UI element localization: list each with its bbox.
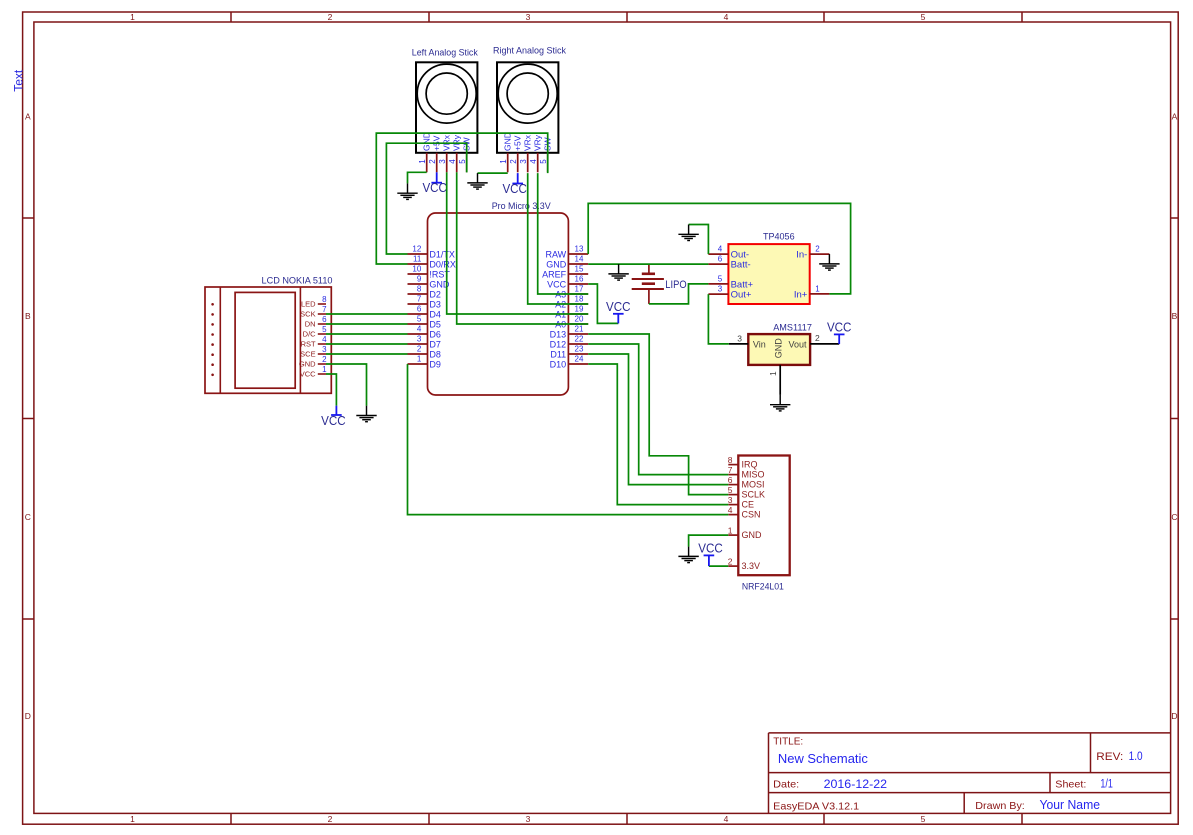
svg-text:IRQ: IRQ — [742, 460, 758, 470]
ground (NRF24L01 GND) — [678, 547, 698, 563]
svg-text:3: 3 — [526, 814, 531, 824]
svg-text:4: 4 — [417, 325, 422, 334]
wire LCD DN to D5 — [326, 323, 408, 325]
wire Out+ to AMS1117 Vin — [708, 294, 728, 344]
svg-text:8: 8 — [728, 455, 733, 465]
pin 9 GND — [408, 275, 450, 290]
svg-text:5: 5 — [539, 159, 548, 164]
svg-text:9: 9 — [417, 275, 422, 284]
svg-text:8: 8 — [417, 285, 422, 294]
svg-text:6: 6 — [417, 305, 422, 314]
svg-text:6: 6 — [718, 255, 723, 264]
wire ground to Out- — [689, 225, 709, 255]
svg-text:VRy: VRy — [532, 134, 542, 151]
pin 3 D7 — [408, 335, 441, 350]
wire battery bottom to Batt+ — [649, 284, 709, 304]
svg-text:1: 1 — [768, 371, 778, 376]
pin 2 In- — [796, 245, 829, 261]
svg-text:5: 5 — [728, 485, 733, 495]
svg-text:Out+: Out+ — [731, 290, 752, 301]
pin 1 D9 — [408, 355, 441, 370]
svg-text:2: 2 — [322, 355, 327, 364]
ground (LCD GND) — [356, 406, 376, 422]
wire LCD SCK to D4 — [326, 313, 408, 315]
pin 5 SW — [539, 137, 552, 172]
svg-text:Drawn By:: Drawn By: — [975, 800, 1025, 812]
svg-text:In+: In+ — [794, 289, 808, 300]
svg-text:6: 6 — [728, 475, 733, 485]
svg-text:D6: D6 — [429, 329, 441, 339]
svg-text:D/C: D/C — [303, 330, 317, 339]
svg-text:LCD NOKIA 5110: LCD NOKIA 5110 — [262, 275, 333, 286]
wire D11 to MOSI — [588, 354, 728, 485]
pin 1 GND — [768, 338, 783, 395]
svg-text:D12: D12 — [550, 339, 567, 349]
svg-text:1: 1 — [130, 814, 135, 824]
svg-text:3: 3 — [438, 159, 447, 164]
wire D10 to CE — [588, 364, 728, 505]
wire NRF GND to ground — [689, 535, 729, 547]
svg-text:D0/RX: D0/RX — [429, 259, 456, 269]
pin 17 A3 — [555, 285, 588, 300]
svg-text:4: 4 — [724, 12, 729, 22]
pin 15 AREF — [542, 265, 588, 280]
pin 8 LED — [301, 295, 327, 309]
pin 20 A0 — [555, 315, 588, 330]
pin 2 D8 — [408, 345, 441, 360]
svg-text:7: 7 — [322, 305, 327, 314]
power flag VCC (right stick +5V) — [502, 173, 527, 196]
svg-text:3: 3 — [526, 12, 531, 22]
ground (Batt- net) — [608, 264, 628, 280]
svg-text:D1/TX: D1/TX — [429, 249, 455, 259]
svg-text:4: 4 — [322, 335, 327, 344]
svg-text:1/1: 1/1 — [1100, 779, 1113, 791]
pin 8 D2 — [408, 285, 441, 300]
svg-text:GND: GND — [299, 360, 316, 369]
svg-text:2: 2 — [509, 159, 518, 164]
svg-text:REV:: REV: — [1096, 751, 1123, 763]
regulator U5 AMS1117 — [748, 334, 810, 365]
pin 5 D5 — [408, 315, 441, 330]
svg-text:In-: In- — [796, 250, 807, 261]
pin 5 SW — [458, 137, 471, 172]
wire right VRy to A3 — [538, 173, 589, 294]
svg-text:1: 1 — [322, 365, 327, 374]
pin 7 SCK — [300, 305, 327, 319]
svg-text:1: 1 — [728, 526, 733, 536]
power flag VCC (left stick +5V) — [422, 172, 447, 195]
svg-text:A: A — [25, 112, 31, 122]
svg-text:GND: GND — [421, 132, 431, 151]
ground (right stick) — [467, 173, 487, 189]
svg-text:4: 4 — [718, 245, 723, 254]
svg-text:VCC: VCC — [502, 182, 527, 196]
pin 2 3.3V — [728, 557, 760, 572]
wire left SW to D1/TX — [386, 143, 466, 254]
pin 6 DN — [305, 315, 327, 329]
svg-text:2: 2 — [328, 814, 333, 824]
svg-text:D: D — [25, 711, 31, 721]
wire LCD GND to ground — [326, 364, 367, 406]
pin 1 GND — [418, 132, 431, 172]
pin 4 Out- — [708, 245, 749, 261]
pin 7 MISO — [728, 465, 765, 480]
ground (Out- net) — [678, 225, 698, 241]
svg-text:Batt-: Batt- — [731, 260, 751, 271]
svg-text:D5: D5 — [429, 319, 441, 329]
svg-text:D10: D10 — [550, 359, 567, 369]
svg-text:Vout: Vout — [788, 339, 807, 349]
svg-text:B: B — [1172, 311, 1178, 321]
pin 1 GND — [728, 526, 762, 541]
pin 4 CSN — [728, 505, 761, 520]
pin 6 MOSI — [728, 475, 765, 490]
svg-text:Left Analog Stick: Left Analog Stick — [412, 47, 478, 58]
svg-text:MISO: MISO — [742, 470, 765, 480]
pin 16 VCC — [547, 275, 588, 290]
svg-text:4: 4 — [724, 814, 729, 824]
svg-text:1: 1 — [815, 285, 820, 294]
svg-text:GND: GND — [773, 338, 783, 359]
wire right stick GND to ground — [478, 172, 508, 174]
svg-text:5: 5 — [921, 814, 926, 824]
svg-text:24: 24 — [575, 355, 584, 364]
power flag VCC (LCD VCC) — [321, 406, 346, 428]
svg-text:D11: D11 — [550, 349, 566, 359]
pin 10 !RST — [408, 265, 451, 280]
svg-text:3.3V: 3.3V — [742, 561, 761, 571]
svg-text:3: 3 — [519, 159, 528, 164]
svg-text:2: 2 — [815, 333, 820, 343]
svg-text:D8: D8 — [429, 349, 441, 359]
pin 1 VCC — [300, 365, 327, 379]
svg-text:D13: D13 — [550, 329, 567, 339]
ground (left stick) — [397, 183, 417, 199]
svg-text:EasyEDA V3.12.1: EasyEDA V3.12.1 — [773, 801, 859, 813]
svg-text:AREF: AREF — [542, 269, 567, 279]
svg-text:12: 12 — [412, 245, 421, 254]
pin 23 D11 — [550, 345, 588, 360]
svg-text:3: 3 — [737, 333, 742, 343]
svg-text:AMS1117: AMS1117 — [773, 322, 812, 333]
pin 3 Out+ — [708, 285, 752, 301]
svg-text:LED: LED — [301, 300, 316, 309]
svg-text:2: 2 — [417, 345, 422, 354]
wire LCD D/C to D6 — [326, 333, 408, 335]
svg-text:DN: DN — [305, 320, 316, 329]
svg-text:2: 2 — [728, 557, 733, 567]
pin 3 VRx — [438, 134, 451, 172]
pin 11 D0/RX — [408, 255, 456, 270]
svg-text:13: 13 — [575, 245, 584, 254]
svg-text:3: 3 — [718, 285, 723, 294]
svg-text:3: 3 — [728, 495, 733, 505]
svg-text:1: 1 — [499, 159, 508, 164]
wire LCD RST to D7 — [326, 343, 408, 345]
svg-text:D: D — [1171, 711, 1177, 721]
svg-text:8: 8 — [322, 295, 327, 304]
svg-text:RST: RST — [301, 340, 316, 349]
svg-text:2016-12-22: 2016-12-22 — [824, 779, 888, 791]
svg-text:C: C — [25, 512, 31, 522]
svg-text:MOSI: MOSI — [742, 480, 765, 490]
power flag VCC (NRF24L01 3.3V) — [698, 542, 728, 567]
wire D12 to MISO — [588, 344, 728, 475]
svg-text:C: C — [1171, 512, 1177, 522]
pin 14 GND — [546, 255, 588, 270]
svg-text:VCC: VCC — [300, 370, 316, 379]
pin 19 A1 — [555, 305, 588, 320]
pin 4 VRy — [529, 134, 542, 172]
pin 13 RAW — [546, 245, 589, 260]
svg-text:4: 4 — [728, 505, 733, 515]
title block — [769, 733, 1171, 814]
power flag VCC (Pro Micro VCC) — [606, 300, 631, 324]
svg-text:VCC: VCC — [321, 414, 346, 428]
svg-text:CE: CE — [742, 500, 755, 510]
pin 4 VRy — [448, 134, 461, 172]
svg-text:GND: GND — [742, 530, 763, 540]
svg-text:14: 14 — [575, 255, 584, 264]
svg-text:SCE: SCE — [300, 350, 315, 359]
RF module U3 NRF24L01 — [738, 456, 789, 576]
svg-text:10: 10 — [412, 265, 421, 274]
MCU U1 Pro Micro 3.3V — [428, 213, 569, 395]
svg-text:23: 23 — [575, 345, 584, 354]
pin 24 D10 — [550, 355, 589, 370]
svg-text:D3: D3 — [429, 299, 441, 309]
svg-text:+5V: +5V — [512, 135, 522, 151]
svg-text:Vin: Vin — [753, 339, 766, 349]
svg-text:VCC: VCC — [422, 181, 447, 195]
LCD module U2 LCD NOKIA 5110 — [205, 287, 331, 393]
svg-text:A: A — [1172, 112, 1178, 122]
svg-text:2: 2 — [328, 12, 333, 22]
svg-text:7: 7 — [417, 295, 422, 304]
svg-text:5: 5 — [417, 315, 422, 324]
wire right SW to D0/RX — [376, 133, 547, 264]
pin 4 D6 — [408, 325, 441, 340]
svg-text:TITLE:: TITLE: — [773, 737, 803, 748]
svg-text:6: 6 — [322, 315, 327, 324]
pin 7 D3 — [408, 295, 441, 310]
svg-text:D7: D7 — [429, 339, 441, 349]
svg-text:4: 4 — [448, 159, 457, 164]
svg-text:1: 1 — [130, 12, 135, 22]
svg-text:B: B — [25, 311, 31, 321]
pin 2 +5V — [428, 135, 441, 172]
wire right VRx to A2 — [528, 173, 589, 304]
svg-text:18: 18 — [575, 295, 584, 304]
wire left VRx to A1 — [447, 172, 589, 314]
svg-text:VRx: VRx — [522, 134, 532, 151]
svg-text:3: 3 — [417, 335, 422, 344]
pin 3 CE — [728, 495, 754, 510]
svg-text:17: 17 — [575, 285, 584, 294]
pin 3 SCE — [300, 345, 327, 359]
svg-text:Sheet:: Sheet: — [1055, 779, 1086, 791]
wire LCD SCE to D8 — [326, 353, 408, 355]
power flag VCC (AMS1117 Vout) — [827, 320, 852, 344]
pin 2 GND — [299, 355, 327, 369]
svg-text:5: 5 — [322, 325, 327, 334]
svg-text:15: 15 — [575, 265, 584, 274]
wire left VRy to A0 — [457, 172, 589, 324]
svg-text:1.0: 1.0 — [1129, 751, 1143, 763]
svg-text:16: 16 — [575, 275, 584, 284]
pin 1 In+ — [794, 285, 830, 301]
svg-text:5: 5 — [921, 12, 926, 22]
pin 3 VRx — [519, 134, 532, 172]
pin 21 D13 — [550, 325, 589, 340]
svg-text:2: 2 — [428, 159, 437, 164]
svg-text:NRF24L01: NRF24L01 — [742, 581, 784, 592]
pin 12 D1/TX — [408, 245, 455, 260]
svg-text:1: 1 — [417, 355, 422, 364]
svg-text:Right Analog Stick: Right Analog Stick — [493, 46, 566, 57]
svg-text:VCC: VCC — [698, 542, 723, 556]
svg-text:21: 21 — [575, 325, 584, 334]
pin 18 A2 — [555, 295, 588, 310]
pin 6 Batt- — [708, 255, 750, 271]
svg-text:LIPO: LIPO — [665, 279, 687, 291]
pin 5 SCLK — [728, 485, 765, 500]
svg-text:D9: D9 — [429, 359, 441, 369]
svg-text:Your Name: Your Name — [1040, 798, 1101, 812]
svg-text:TP4056: TP4056 — [763, 231, 795, 242]
svg-text:D4: D4 — [429, 309, 441, 319]
pin 1 GND — [499, 132, 512, 172]
svg-text:Date:: Date: — [773, 779, 799, 791]
connector J1 Left Analog Stick — [416, 62, 477, 153]
svg-text:22: 22 — [575, 335, 584, 344]
svg-text:11: 11 — [413, 255, 422, 264]
wire D9 to CSN — [408, 364, 729, 515]
wire VCC16 to VCC flag — [588, 284, 618, 323]
ground (TP4056 In-) — [819, 254, 839, 270]
pin 5 Batt+ — [708, 275, 753, 291]
pin 4 RST — [301, 335, 328, 349]
wire left stick GND to ground — [408, 172, 427, 183]
svg-text:Pro Micro 3.3V: Pro Micro 3.3V — [492, 201, 552, 212]
svg-text:RAW: RAW — [546, 249, 567, 259]
svg-text:GND: GND — [502, 132, 512, 151]
svg-text:VCC: VCC — [547, 279, 567, 289]
svg-text:VCC: VCC — [827, 320, 852, 334]
svg-text:20: 20 — [575, 315, 584, 324]
svg-text:GND: GND — [546, 259, 567, 269]
charger U4 TP4056 — [728, 244, 809, 304]
pin 22 D12 — [550, 335, 589, 350]
svg-text:1: 1 — [418, 159, 427, 164]
pin 8 IRQ — [728, 455, 758, 470]
svg-text:3: 3 — [322, 345, 327, 354]
pin 5 D/C — [303, 325, 327, 339]
svg-text:2: 2 — [815, 245, 820, 254]
wire D13 to SCLK — [588, 334, 728, 495]
svg-text:CSN: CSN — [742, 510, 761, 520]
svg-text:Text: Text — [11, 69, 25, 92]
wire LCD VCC to VCC flag — [326, 374, 336, 406]
svg-text:5: 5 — [718, 275, 723, 284]
svg-text:4: 4 — [529, 159, 538, 164]
wire RAW to TP4056 In+ — [588, 203, 850, 294]
connector J2 Right Analog Stick — [497, 62, 558, 153]
pin 2 +5V — [509, 135, 522, 172]
svg-text:SCK: SCK — [300, 310, 315, 319]
svg-text:19: 19 — [575, 305, 584, 314]
pin 2 Vout — [788, 333, 839, 349]
svg-text:SCLK: SCLK — [742, 490, 766, 500]
svg-text:D2: D2 — [429, 289, 441, 299]
svg-text:New Schematic: New Schematic — [778, 752, 868, 766]
battery BT1 LIPO — [632, 264, 664, 304]
pin 3 Vin — [729, 333, 766, 349]
svg-text:7: 7 — [728, 465, 733, 475]
svg-text:VCC: VCC — [606, 300, 631, 314]
wire GND14 to Batt- with ground and battery taps — [588, 263, 708, 265]
ground (AMS1117 GND) — [770, 395, 790, 411]
svg-text:5: 5 — [458, 159, 467, 164]
pin 6 D4 — [408, 305, 441, 320]
